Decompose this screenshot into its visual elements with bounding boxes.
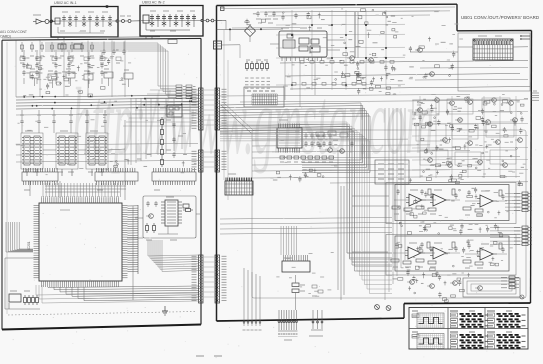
- parts near CN-B: [312, 285, 323, 296]
- output channel frame row2: [395, 236, 509, 271]
- right board UB01 bottom border right part: [404, 302, 531, 305]
- verticals from HIC01 down: [285, 57, 315, 107]
- return loop wires bottom left board: [36, 285, 198, 303]
- main feed wire y29: [217, 28, 284, 41]
- frame around T101: [458, 33, 530, 91]
- hybrid converter IC HIC01: [279, 28, 327, 61]
- vertical comb logic row to QFP: [43, 183, 121, 197]
- IC IC301 with pin combs: [277, 120, 302, 153]
- input component row (fuses/caps) on UA01: [20, 42, 94, 56]
- transistor Q202: [427, 72, 434, 77]
- second input row caps: [102, 42, 125, 56]
- connector strip CN2c: [215, 255, 227, 303]
- transistor array mid-right: [415, 98, 522, 168]
- wire comb from QFP right pins: [128, 205, 139, 300]
- resistor stack above CN-A: [292, 275, 305, 310]
- op-amp row1 inner parts: [397, 187, 500, 218]
- top edge wires right board: [220, 7, 455, 12]
- wire bundle bus W4b: [220, 124, 392, 271]
- right board UB01 top border: [217, 4, 458, 5]
- channel cluster B: [54, 51, 74, 84]
- junction dots left buses: [24, 95, 193, 109]
- transformer T201 (grid symbol): [225, 174, 253, 195]
- parts between rows: [401, 223, 503, 237]
- logic IC row IC106: [152, 168, 196, 190]
- IC cluster IC102: [56, 131, 78, 176]
- row1 parts under frame: [399, 222, 502, 234]
- filter components inside UB03: [141, 11, 202, 31]
- wires to CN401 CN402: [490, 194, 522, 245]
- waveform table box: [409, 308, 528, 350]
- wires dropping to bottom border: [243, 268, 262, 330]
- op-amp U402: [416, 189, 460, 214]
- tiny text under strips: [196, 355, 222, 357]
- fiducial square top-left UB01: [221, 7, 225, 11]
- svg-text:OARD): OARD): [0, 35, 11, 39]
- node J3 (box B out): [201, 19, 203, 21]
- wires sub-circuit to QFP: [127, 214, 200, 238]
- nested corner bundle top-right of UA01: [45, 43, 176, 97]
- svg-text:UB03 AC IN-2: UB03 AC IN-2: [142, 1, 165, 5]
- connector strip CN1a (left board edge): [192, 88, 204, 130]
- mid component field A: [343, 9, 397, 56]
- label box on top border: [168, 40, 177, 44]
- svg-text:IC201: IC201: [27, 241, 31, 250]
- output channel outer frame row1: [386, 183, 516, 224]
- ladder corner bends: [148, 240, 162, 271]
- ladder wires into CN1c: [148, 255, 198, 271]
- bottom connector CN-A pins: [278, 310, 298, 340]
- left board UA01 top border: [2, 38, 201, 40]
- resistor chains top-center: [292, 61, 394, 86]
- transistor Q102: [347, 56, 354, 61]
- coupling connectors between filter boxes: [118, 16, 140, 23]
- label table block right-mid: [375, 160, 409, 184]
- connector strip CN1b: [192, 150, 204, 172]
- mid component field B: [335, 65, 396, 94]
- op-amp U403: [463, 190, 507, 215]
- oscillogram grid cell top: [412, 311, 444, 328]
- transistor Q201: [415, 48, 422, 53]
- EMI filter box UB03 (bold): [140, 6, 203, 37]
- right board UB01 left border: [216, 6, 218, 322]
- long wire upper2: [285, 74, 520, 77]
- op-amp U404: [391, 242, 435, 267]
- left board UA01 right border: [200, 38, 202, 324]
- op-amp U405: [416, 242, 460, 267]
- text noise transistor field: [412, 94, 528, 179]
- bottom connector CN-B pins: [309, 310, 323, 336]
- IC IC501 above bottom connector: [282, 255, 310, 272]
- mount hole symbol M3: [520, 295, 524, 299]
- extra small rect parts mid-right: [414, 98, 512, 173]
- waveform cell row2 col3: [487, 332, 526, 349]
- bottom transistor row: [407, 280, 482, 291]
- waveform cell row1 col3: [487, 311, 526, 328]
- connector CN402 right edge: [514, 226, 532, 246]
- resistor bank and labels x245-270: [245, 60, 270, 88]
- parts bottom right extra: [408, 272, 464, 302]
- channel cluster A: [22, 51, 42, 84]
- svg-text:UB01 CONV./OUT./POWERS’ BOARD: UB01 CONV./OUT./POWERS’ BOARD: [461, 15, 539, 20]
- channel cluster C: [87, 51, 107, 84]
- oscillogram grid cell bottom: [412, 332, 444, 349]
- nested rect frames bottom-right: [463, 278, 520, 297]
- text noise op-amp rows: [397, 192, 514, 273]
- logic IC row IC105: [95, 168, 138, 190]
- waveform cell row2 col2: [450, 332, 489, 349]
- parts row 2 under IC301: [273, 169, 324, 183]
- right board UB01 top-right border: [457, 30, 532, 32]
- left board scatter extra: [26, 59, 126, 97]
- left board scatter extra2: [114, 155, 187, 168]
- sub-circuit IC202 block: [143, 196, 196, 240]
- IC cluster IC101: [21, 131, 43, 176]
- left board UA01 bottom border (bold): [2, 325, 201, 330]
- coupling connectors to right board: [203, 19, 222, 22]
- QFP top pin stubs: [42, 196, 119, 198]
- QFP microcontroller IC201: [27, 198, 128, 288]
- svg-text:UB02 AC IN-1: UB02 AC IN-1: [54, 1, 77, 5]
- connector strip CN1c: [192, 255, 204, 303]
- EMI filter box UB02 (bold): [51, 7, 118, 38]
- vertical bundle thickened: [220, 122, 392, 294]
- node J2 (box A out): [116, 20, 118, 22]
- text noise center: [270, 131, 337, 178]
- line filter transformer T101 (grid): [473, 36, 513, 60]
- row2 parts under frame: [393, 270, 471, 286]
- right board UB01 right border: [531, 31, 532, 304]
- left board inner margin wire: [6, 42, 8, 314]
- fanout wires into left board from CN1a: [123, 90, 198, 126]
- reset circuit cluster bottom-left: [5, 258, 40, 309]
- left inner verticals right board: [224, 30, 228, 200]
- component row y57: [20, 57, 121, 63]
- left board extra horizontal wires: [16, 113, 198, 162]
- center vertical wires: [338, 150, 344, 300]
- wire bundle corners left of QFP: [6, 222, 33, 252]
- top-center wire mesh: [276, 10, 405, 90]
- op-amp U401: [392, 189, 436, 214]
- ground symbol left board: [162, 306, 168, 315]
- feedback wires row1: [352, 196, 389, 262]
- cap row top UB01: [256, 11, 278, 23]
- right edge connector stubs: [531, 91, 539, 100]
- connector strip CN2b: [215, 150, 227, 172]
- horizontal power bus wires: [16, 95, 199, 109]
- text noise upper right board: [283, 9, 463, 94]
- vertical wire pair mid: [355, 12, 358, 58]
- right board UB01 step-down border: [456, 4, 458, 31]
- sub-cluster X201: [160, 102, 190, 117]
- junction dots top-center: [291, 24, 387, 86]
- node J1 (box A in): [50, 20, 52, 22]
- mount hole symbol M1: [375, 305, 380, 310]
- right board UB01 bottom step: [403, 304, 405, 319]
- wire bundle bus W4: [220, 103, 370, 173]
- parts above op-amp rows: [409, 177, 522, 187]
- wires from HIC01: [270, 40, 345, 50]
- decoupling caps right of IC301: [304, 133, 331, 147]
- right board vertical bundle x385-405: [385, 108, 405, 300]
- connector CN401 right edge: [514, 192, 532, 212]
- upper-mid component field: [245, 12, 324, 31]
- matrix grid block G1: [244, 87, 284, 107]
- wire above left board top border: [2, 37, 160, 38]
- parts chain left of strips: [161, 117, 184, 167]
- wires joining IC clusters: [43, 120, 125, 200]
- diagonal wire D2: [224, 103, 254, 131]
- op-amp row2 inner parts: [396, 239, 499, 271]
- op-amp U406: [463, 243, 507, 268]
- text noise left board: [16, 50, 197, 175]
- output channel frame row1: [395, 185, 509, 221]
- verticals from IC501 up: [281, 226, 297, 255]
- right board UB01 bottom border left part: [217, 318, 405, 321]
- center sub-circuit parts: [316, 131, 354, 156]
- junction on box A top border: [106, 5, 108, 7]
- sub-section frame on UB01: [252, 130, 526, 298]
- regulator/diode rectangles row: [30, 69, 133, 88]
- svg-text:A01 CONV.CONT: A01 CONV.CONT: [0, 30, 27, 34]
- wire ladder from QFP bottom to connector: [48, 286, 199, 301]
- resistor row under IC301: [280, 156, 334, 162]
- transistor field interconnect mesh: [412, 96, 528, 178]
- top scatter right board: [356, 61, 403, 94]
- diagonal wire D1: [221, 105, 251, 133]
- sub-block outlines mid-right field: [413, 98, 516, 165]
- inter-board tie wires: [204, 90, 214, 297]
- connector on border CN2t: [214, 41, 241, 58]
- wire drops from UB02 to UA01: [58, 36, 152, 40]
- connector CN403 right edge: [501, 276, 519, 289]
- wires CN2c to output section: [220, 218, 392, 235]
- wires from T101: [410, 47, 528, 52]
- pin header P3 terminations: [176, 85, 196, 99]
- right board horizontal routing wires: [220, 11, 528, 183]
- smoothing capacitor row: [20, 110, 107, 133]
- input wire into right board: [217, 20, 227, 29]
- output channel outer frame row2: [386, 235, 516, 276]
- logic IC row IC104: [22, 168, 58, 190]
- long wire upper3: [290, 87, 530, 90]
- waveform cell row1 col2: [450, 311, 489, 328]
- transistor Q103: [366, 58, 373, 63]
- bus between logic row and QFP: [30, 181, 126, 198]
- left board UA01 left border: [1, 40, 3, 329]
- mid-right component field: [414, 97, 524, 180]
- AC inlet plug P1: [33, 15, 55, 24]
- mount hole symbol M2: [386, 306, 391, 311]
- IC cluster IC103: [86, 131, 108, 176]
- bridge diode D101: [244, 22, 256, 42]
- scatter left of T101: [409, 37, 456, 79]
- filter components inside UB02: [52, 12, 117, 33]
- vertical feed wires to bus: [16, 41, 125, 98]
- left board vertical routing wires: [131, 98, 190, 165]
- connector strip CN2a (right board edge): [215, 88, 227, 130]
- text noise bottom center: [276, 252, 333, 296]
- long wire upper1: [280, 61, 528, 64]
- left board inner dotted margin line: [8, 312, 196, 316]
- connector pins right edge top: [520, 35, 530, 40]
